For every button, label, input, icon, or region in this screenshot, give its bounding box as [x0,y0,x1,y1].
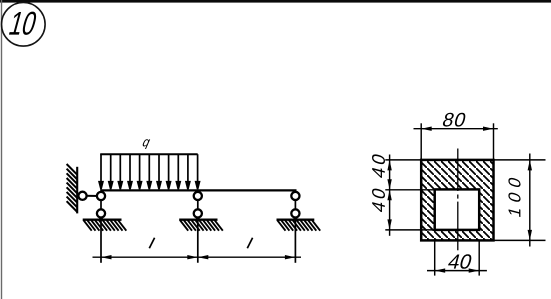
section vertical centerline upper segment [457,149,459,192]
dim 40 bottom extension left [434,242,436,276]
dim 40 bottom label [447,254,473,269]
page frame top border [0,0,551,3]
span dimension line [93,256,302,258]
ground C line [277,218,315,220]
hinge A upper circle [97,192,105,200]
dim 40 bottom arrows [435,268,480,272]
dim 100 extension bottom [494,239,546,241]
dim 40 lower-left label [372,187,385,213]
dim 100 arrows [528,160,532,241]
dim 100 line [529,154,531,247]
distributed load top line [100,153,198,155]
roller B lower circle [194,209,202,217]
wall hatching [67,164,78,212]
section outer rectangle [421,160,493,241]
dim 80 line [414,128,498,130]
dim 40 left extension bottom [385,229,434,231]
dim 40 left extension top [385,159,421,161]
ground A line [83,218,122,220]
dim 100 extension top [494,159,546,161]
dim 40 bottom line [427,270,487,272]
hinge B upper circle [194,192,202,200]
dim 100 label [508,177,520,217]
ground A hatching [84,220,127,231]
dim 80 extension left [420,123,422,160]
section inner hole [435,189,480,230]
span label l first [149,238,154,249]
dim 40 upper-left label [372,153,385,179]
dim 40 left arrows [387,160,391,230]
link wall pin to beam pin [83,195,102,197]
task number label 10 [9,12,38,35]
span dim arrows [101,255,295,259]
dim 80 extension right [493,123,495,160]
wall pin circle [78,192,86,200]
dim 40 left extension middle [385,189,434,191]
section vertical centerline lower segment [457,202,459,251]
hinge C upper circle [291,192,299,200]
wall line [76,167,78,214]
roller A lower circle [97,209,105,217]
dim 80 arrows [421,127,493,131]
load label q [142,139,151,149]
beam [100,189,296,191]
ground C hatching [277,220,320,231]
distributed load arrows [99,154,199,189]
roller C lower circle [291,209,299,217]
dim 40 bottom extension right [478,242,480,276]
task number circle [2,3,46,47]
page frame left border [1,0,2,299]
dim 40 left line [389,155,391,236]
support C vertical link [294,192,296,263]
section vertical centerline dot [457,195,459,199]
support B vertical link [197,192,199,263]
support A vertical link [100,192,102,263]
dim 80 label [442,113,467,127]
ground B line [179,218,217,220]
span label l second [247,238,252,249]
ground B hatching [180,220,223,231]
